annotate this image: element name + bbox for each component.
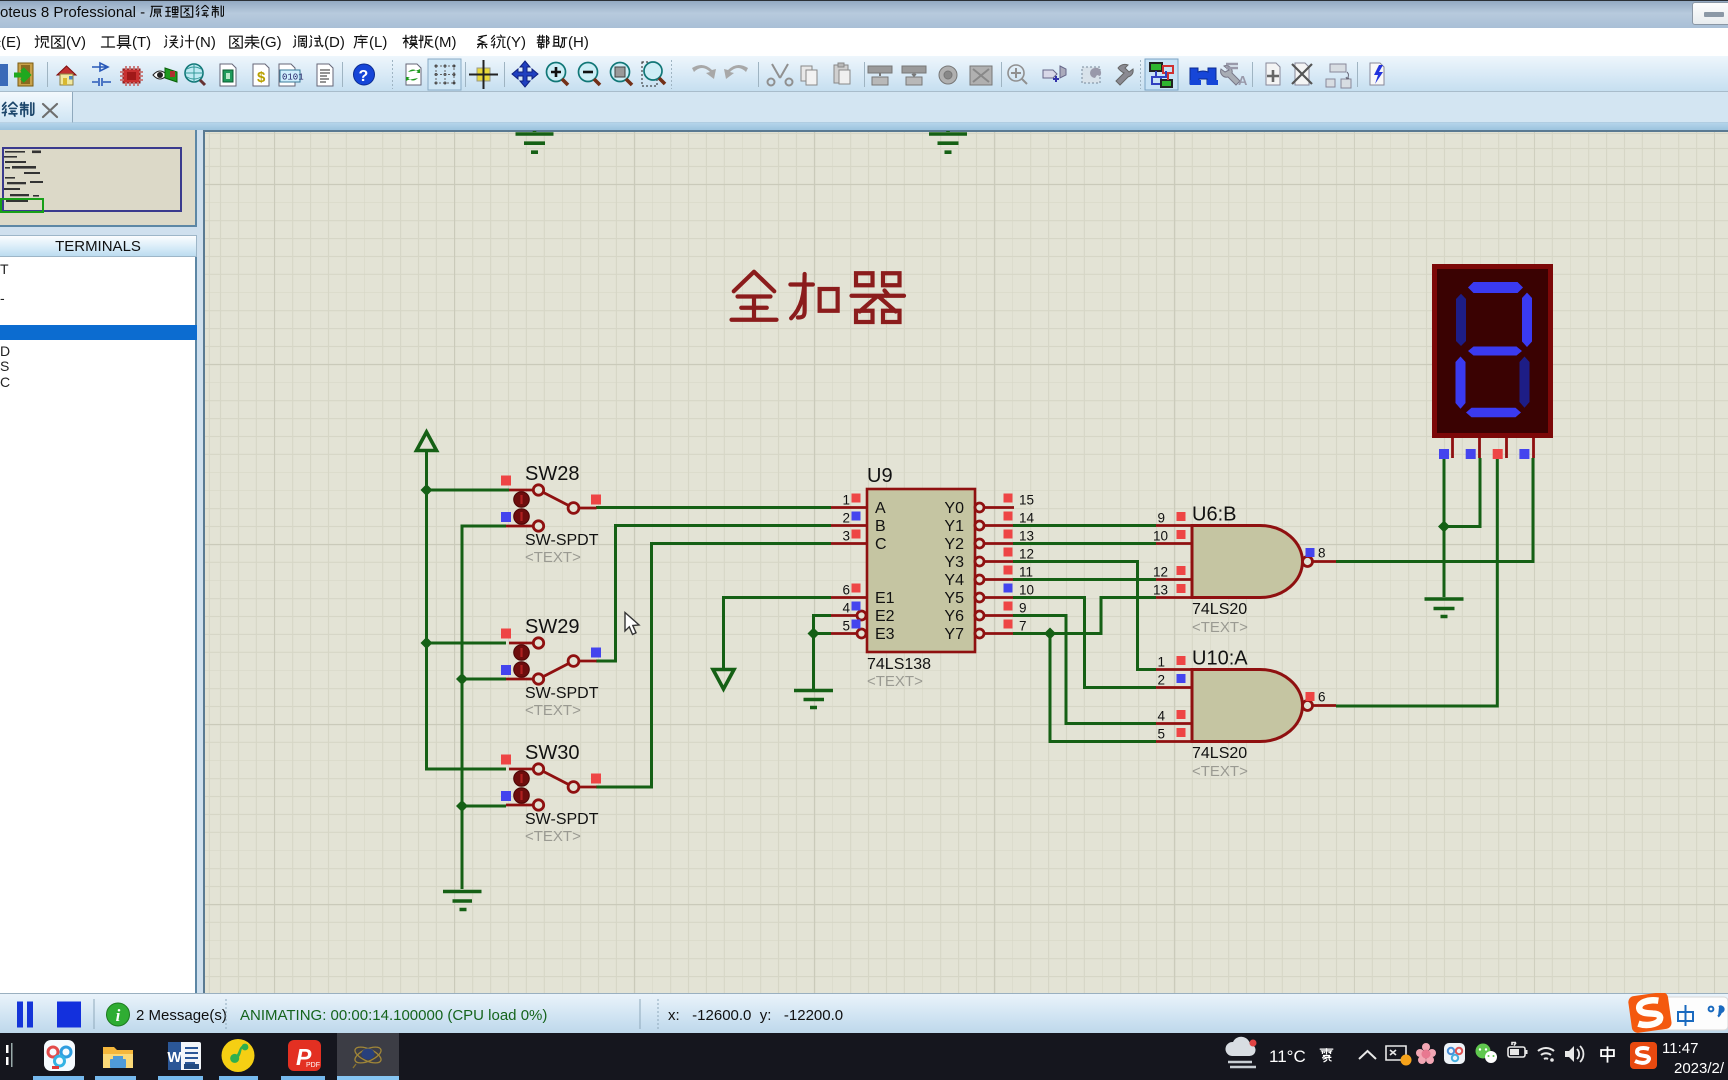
copy icon (disabled) — [801, 66, 817, 85]
svg-text:4: 4 — [1157, 709, 1165, 724]
svg-text:SW-SPDT: SW-SPDT — [525, 685, 599, 702]
ground (top left, net off-screen) — [516, 129, 554, 152]
svg-text:11: 11 — [1019, 565, 1033, 580]
svg-text:E1: E1 — [875, 590, 895, 607]
magnifier globe icon — [185, 64, 205, 85]
report icon — [317, 64, 333, 86]
redo icon (disabled) — [724, 65, 748, 79]
netlist icon — [279, 64, 304, 86]
svg-text:74LS138: 74LS138 — [867, 656, 931, 673]
svg-text:74LS20: 74LS20 — [1192, 601, 1247, 618]
segment g (lit) — [1468, 347, 1522, 356]
wire: Y7 branch to U10:A pin5 — [1050, 634, 1156, 742]
svg-text:6: 6 — [1318, 690, 1326, 705]
junction at power rail / SW29 — [421, 637, 433, 649]
block move icon (disabled) — [902, 66, 926, 85]
chip icon — [120, 66, 143, 86]
paste icon (disabled) — [834, 63, 850, 84]
svg-text:B: B — [875, 518, 886, 535]
svg-text:Y5: Y5 — [944, 590, 964, 607]
svg-text:Y1: Y1 — [944, 518, 964, 535]
origin icon — [469, 60, 498, 89]
svg-text:C: C — [875, 536, 887, 553]
zoom out icon — [579, 63, 601, 86]
pan icon — [512, 61, 538, 87]
design explorer icon — [220, 64, 236, 86]
svg-text:<TEXT>: <TEXT> — [525, 549, 581, 566]
svg-text:Y0: Y0 — [944, 500, 964, 517]
segment a (lit) — [1468, 282, 1523, 293]
svg-text:i: i — [116, 1006, 121, 1025]
svg-text:U10:A: U10:A — [1192, 648, 1248, 670]
svg-text:74LS20: 74LS20 — [1192, 745, 1247, 762]
svg-text:A: A — [1238, 73, 1248, 88]
wire: E1 to down-arrow terminal — [724, 598, 832, 670]
svg-text:1: 1 — [1157, 655, 1165, 670]
segment d (lit) — [1466, 408, 1521, 418]
new sheet icon — [1266, 63, 1280, 85]
wire: SW29 common to U9.B — [596, 526, 831, 662]
segment c (unlit) — [1520, 357, 1530, 408]
svg-text:<TEXT>: <TEXT> — [1192, 763, 1248, 780]
property assignment icon — [1221, 64, 1248, 88]
svg-text:4: 4 — [842, 601, 850, 616]
svg-text:SW29: SW29 — [525, 616, 579, 638]
segment f (unlit) — [1456, 294, 1466, 346]
7-segment display — [1432, 264, 1553, 459]
grid toggle (pressed) — [428, 59, 461, 90]
schematic title 全加器 — [732, 272, 905, 322]
wire: display pins 1,2 to ground — [1444, 458, 1480, 597]
wire: SW30 common to U9.C — [596, 544, 831, 788]
svg-text:13: 13 — [1153, 583, 1168, 598]
svg-text:12: 12 — [1019, 547, 1034, 562]
wire: Y5 to U10:A pin2 — [1013, 598, 1156, 688]
svg-text:9: 9 — [1157, 511, 1165, 526]
wire: U10:A output 6 to display pin3 — [1336, 458, 1497, 706]
svg-text:SW-SPDT: SW-SPDT — [525, 532, 599, 549]
junction at power rail / SW28 — [421, 484, 433, 496]
switch SW30 (SW-SPDT) — [501, 742, 601, 845]
preview icon — [153, 68, 177, 82]
wire: Y7 to U6:B pin13 — [1013, 598, 1156, 634]
power terminal (down arrow) at E1 — [713, 670, 734, 690]
svg-text:Y4: Y4 — [944, 572, 964, 589]
block copy icon (disabled) — [868, 66, 892, 85]
wire: Y1 to U6:B pin9 — [1013, 524, 1156, 527]
goto sheet icon — [1326, 64, 1351, 88]
svg-text:Y3: Y3 — [944, 554, 964, 571]
junction at ground rail / SW30 — [456, 800, 468, 812]
svg-text:11:47: 11:47 — [1662, 1040, 1698, 1057]
wire: Y4 to U6:B pin12 — [1013, 578, 1156, 581]
help icon — [354, 64, 375, 85]
svg-text:W: W — [167, 1049, 182, 1066]
gate U10:A 74LS20 — [1156, 648, 1336, 781]
svg-text:7: 7 — [1019, 619, 1027, 634]
svg-text:PDF: PDF — [306, 1062, 320, 1069]
ground (top right, net off-screen) — [929, 129, 967, 152]
svg-text:<TEXT>: <TEXT> — [867, 673, 923, 690]
svg-text:SW30: SW30 — [525, 742, 579, 764]
segment e (lit) — [1456, 357, 1466, 409]
wire: Y3 to U10:A pin1 — [1013, 562, 1156, 670]
ground (below display) — [1425, 599, 1464, 617]
wire: U6:B output 8 to display pin4 — [1336, 458, 1533, 562]
svg-text:5: 5 — [1157, 727, 1165, 742]
svg-text:SW28: SW28 — [525, 463, 579, 485]
switch SW28 (SW-SPDT) — [501, 463, 601, 566]
svg-text:Y6: Y6 — [944, 608, 964, 625]
svg-text:3: 3 — [842, 529, 850, 544]
svg-text:2 Message(s): 2 Message(s) — [136, 1007, 227, 1024]
power terminal (up arrow) — [417, 432, 437, 451]
block rotate icon (disabled) — [939, 66, 957, 84]
packaging tool icon — [1082, 67, 1101, 83]
zoom area icon — [642, 62, 665, 86]
svg-text:E3: E3 — [875, 626, 895, 643]
zoom in icon — [547, 63, 569, 86]
svg-text:SW-SPDT: SW-SPDT — [525, 811, 599, 828]
decompose icon (hammer) — [1116, 64, 1133, 85]
svg-text:Y2: Y2 — [944, 536, 964, 553]
svg-text:9: 9 — [1019, 601, 1027, 616]
mouse cursor — [625, 613, 639, 635]
svg-text:Y7: Y7 — [944, 626, 964, 643]
svg-text:15: 15 — [1019, 493, 1034, 508]
svg-text:2023/2/: 2023/2/ — [1674, 1060, 1725, 1077]
wire: Y2 to U6:B pin10 — [1013, 542, 1156, 545]
make device icon — [1043, 66, 1066, 82]
search icon (binoculars) — [1190, 68, 1218, 85]
junction at ground rail / SW29 — [456, 673, 468, 685]
cut icon (disabled) — [768, 64, 793, 86]
svg-text:<TEXT>: <TEXT> — [525, 828, 581, 845]
bom icon — [253, 64, 269, 86]
wire: SW28 common to U9.A — [596, 506, 831, 509]
svg-text:1: 1 — [842, 493, 850, 508]
exit/door icon — [14, 63, 33, 86]
ground (below U9 enables) — [794, 691, 833, 708]
svg-text:2: 2 — [842, 511, 850, 526]
component mode icon — [92, 63, 111, 86]
switch SW29 (SW-SPDT) — [501, 616, 601, 719]
segment b (lit) — [1522, 293, 1532, 347]
svg-text:8: 8 — [1318, 546, 1326, 561]
svg-text:$: $ — [257, 69, 266, 86]
junction at display ground net — [1438, 521, 1450, 533]
home icon — [57, 66, 76, 85]
ground (below switches) — [443, 892, 482, 910]
wire: E2/E3 to ground — [814, 616, 832, 690]
svg-text:2: 2 — [1157, 673, 1165, 688]
wire: power rail from arrow to SW28/SW29/SW30 top throws — [427, 451, 510, 770]
svg-text:14: 14 — [1019, 511, 1035, 526]
svg-text:ANIMATING: 00:00:14.100000 (CP: ANIMATING: 00:00:14.100000 (CPU load 0%) — [240, 1007, 547, 1024]
svg-text:13: 13 — [1019, 529, 1034, 544]
svg-text:6: 6 — [842, 583, 850, 598]
zoom all icon — [611, 63, 633, 86]
svg-text:<TEXT>: <TEXT> — [1192, 619, 1248, 636]
tray — [1225, 1037, 1256, 1067]
svg-text:E2: E2 — [875, 608, 895, 625]
svg-text:A: A — [875, 500, 886, 517]
decoder U9 74LS138 — [831, 465, 1035, 690]
svg-text:12: 12 — [1153, 565, 1168, 580]
svg-text:U6:B: U6:B — [1192, 504, 1236, 526]
svg-text:5: 5 — [842, 619, 850, 634]
sogou IME bar — [1628, 991, 1728, 1033]
svg-text:U9: U9 — [867, 465, 893, 487]
svg-text:<TEXT>: <TEXT> — [525, 702, 581, 719]
gate U6:B 74LS20 — [1153, 504, 1336, 637]
electrical check icon — [1370, 63, 1384, 85]
cut save icon — [0, 64, 8, 86]
netlist to pcb (active) — [1145, 59, 1178, 90]
svg-text:?: ? — [359, 68, 369, 85]
svg-text:10: 10 — [1019, 583, 1034, 598]
wire: ground rail joining SW bottom throws — [462, 526, 506, 889]
refresh icon — [406, 64, 421, 85]
pick parts icon (disabled) — [1008, 65, 1027, 84]
wire: Y6 to U10:A pin4 — [1013, 616, 1156, 724]
undo icon (disabled) — [692, 65, 716, 79]
svg-text:0101: 0101 — [282, 73, 304, 83]
svg-text:x: -12600.0 y: -12200.0: x: -12600.0 y: -12200.0 — [668, 1007, 843, 1024]
remove sheet icon — [1292, 63, 1312, 85]
junction at E3 — [808, 628, 820, 640]
svg-text:11°C: 11°C — [1269, 1047, 1306, 1066]
block delete icon (disabled) — [970, 66, 992, 85]
junction at Y7 branch — [1044, 628, 1056, 640]
svg-text:10: 10 — [1153, 529, 1168, 544]
